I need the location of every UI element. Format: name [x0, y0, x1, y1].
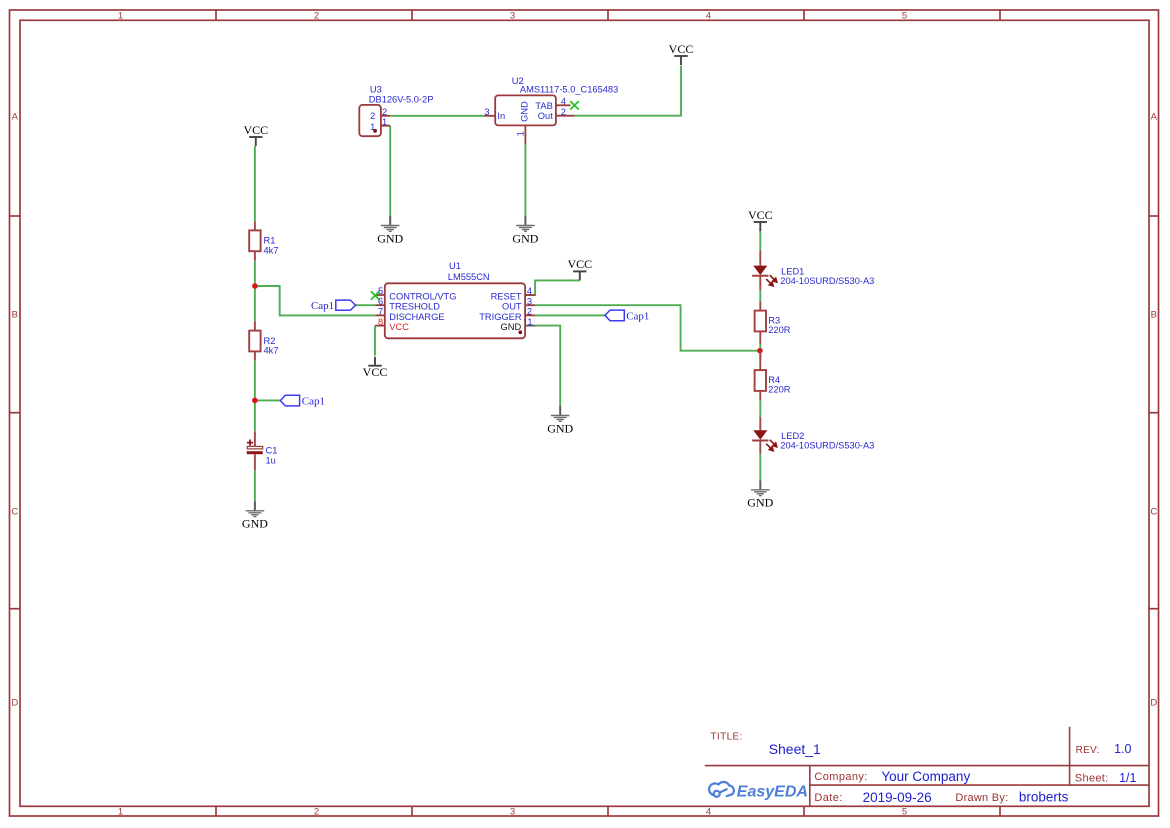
wire VCC1 to R1 — [254, 146, 256, 222]
svg-text:B: B — [1151, 310, 1157, 321]
svg-text:2019-09-26: 2019-09-26 — [863, 790, 932, 805]
wire U1 pin8 to VCC below — [374, 326, 376, 356]
svg-text:Sheet:: Sheet: — [1075, 773, 1109, 785]
svg-text:D: D — [1150, 698, 1157, 709]
svg-text:C: C — [1150, 507, 1157, 518]
port Cap1 at TRESHOLD — [311, 300, 356, 312]
svg-text:4k7: 4k7 — [264, 245, 279, 255]
svg-text:R1: R1 — [264, 236, 276, 246]
U3 — [359, 85, 433, 137]
svg-text:VCC: VCC — [389, 322, 409, 332]
svg-text:204-10SURD/S530-A3: 204-10SURD/S530-A3 — [780, 441, 874, 451]
svg-text:1: 1 — [118, 10, 123, 21]
svg-text:7: 7 — [378, 307, 383, 317]
svg-text:Sheet_1: Sheet_1 — [769, 741, 821, 757]
svg-text:R2: R2 — [264, 336, 276, 346]
svg-text:A: A — [12, 112, 19, 123]
svg-text:3: 3 — [527, 296, 532, 306]
ground at U1 pin1 — [547, 406, 573, 435]
wire R4 to LED2 — [759, 400, 761, 417]
svg-text:In: In — [497, 111, 505, 121]
node junction A — [252, 283, 258, 289]
svg-text:C1: C1 — [266, 445, 278, 455]
wire U3 pin1 to GND — [389, 126, 391, 216]
svg-text:220R: 220R — [768, 385, 791, 395]
VCC flag at R3 — [748, 208, 773, 231]
VCC flag below U1 pin8 — [363, 357, 388, 379]
pin 1 bottom — [524, 125, 526, 144]
svg-text:TRIGGER: TRIGGER — [479, 312, 522, 322]
svg-text:DISCHARGE: DISCHARGE — [389, 312, 444, 322]
svg-text:Out: Out — [538, 111, 553, 121]
svg-text:3: 3 — [510, 10, 515, 21]
svg-text:GND: GND — [520, 101, 530, 122]
svg-text:LM555CN: LM555CN — [448, 272, 490, 282]
svg-text:2: 2 — [314, 807, 319, 818]
svg-text:4k7: 4k7 — [264, 345, 279, 355]
U2 — [484, 76, 618, 144]
svg-text:5: 5 — [902, 10, 907, 21]
node junction C — [757, 348, 763, 354]
svg-text:2: 2 — [382, 107, 387, 117]
svg-text:OUT: OUT — [502, 302, 522, 312]
ground at U3 — [377, 216, 403, 245]
svg-text:1: 1 — [515, 131, 525, 136]
svg-text:TRESHOLD: TRESHOLD — [389, 302, 440, 312]
wire junction B to port Cap1 — [255, 399, 280, 401]
svg-text:broberts: broberts — [1019, 790, 1069, 805]
wire U3 pin2 to U2 In — [390, 115, 485, 117]
svg-text:4: 4 — [527, 286, 532, 296]
right pins stubs — [525, 295, 535, 315]
left pins stubs — [375, 295, 385, 326]
svg-text:2: 2 — [314, 10, 319, 21]
svg-text:5: 5 — [902, 807, 907, 818]
svg-text:1: 1 — [382, 117, 387, 127]
svg-text:D: D — [11, 698, 18, 709]
svg-text:3: 3 — [484, 107, 489, 117]
svg-text:4: 4 — [706, 807, 711, 818]
svg-text:Date:: Date: — [814, 792, 842, 804]
wire LED1 to R3 — [759, 290, 761, 301]
svg-text:2: 2 — [370, 111, 375, 121]
svg-text:EasyEDA: EasyEDA — [737, 784, 808, 801]
wire R1 to junction A to R2 — [254, 261, 256, 322]
resistor R1 — [249, 222, 278, 261]
wire LED2 to GND — [759, 454, 761, 481]
svg-text:6: 6 — [378, 296, 383, 306]
VCC flag at U2 out — [669, 42, 694, 65]
wire U2 GND pin to GND — [524, 145, 526, 216]
svg-text:C: C — [11, 507, 18, 518]
wire U1 GND pin to GND — [535, 326, 560, 406]
port Cap1 at junction B — [280, 395, 325, 407]
capacitor C1 — [247, 431, 278, 470]
svg-text:AMS1117-5.0_C165483: AMS1117-5.0_C165483 — [520, 85, 618, 95]
svg-text:B: B — [12, 310, 18, 321]
svg-text:4: 4 — [561, 96, 566, 106]
svg-text:Drawn By:: Drawn By: — [955, 792, 1008, 804]
svg-text:4: 4 — [706, 10, 711, 21]
wire TRESHOLD to port — [356, 304, 376, 306]
svg-text:Company:: Company: — [814, 771, 867, 783]
svg-text:5: 5 — [378, 286, 383, 296]
svg-text:Cap1: Cap1 — [626, 310, 649, 322]
svg-text:1: 1 — [527, 317, 532, 327]
svg-text:220R: 220R — [768, 325, 791, 335]
op-amp U1 — [371, 261, 535, 338]
wire VCC to RESET — [525, 280, 580, 295]
svg-text:TITLE:: TITLE: — [710, 731, 742, 742]
resistor R2 — [249, 321, 278, 360]
resistor R4 — [755, 351, 791, 401]
svg-text:U3: U3 — [370, 85, 382, 95]
svg-text:Cap1: Cap1 — [302, 395, 325, 407]
svg-text:2: 2 — [561, 107, 566, 117]
svg-text:Cap1: Cap1 — [311, 300, 334, 312]
no-connect X on pin 5 — [371, 291, 379, 299]
LED1 — [752, 251, 874, 291]
wire C1 to GND — [254, 470, 256, 501]
svg-text:1u: 1u — [266, 455, 276, 465]
svg-text:1/1: 1/1 — [1119, 771, 1136, 785]
ground at U2 — [512, 216, 538, 245]
svg-text:3: 3 — [510, 807, 515, 818]
wire junction A to DISCHARGE — [255, 286, 375, 315]
svg-text:REV:: REV: — [1076, 745, 1100, 756]
VCC flag at R1 — [243, 123, 268, 146]
svg-text:DB126V-5.0-2P: DB126V-5.0-2P — [369, 94, 434, 104]
ground at C1 — [242, 501, 268, 530]
no-connect X on pin 4 — [570, 101, 578, 109]
wire VCC4 to LED1 — [759, 229, 761, 250]
svg-text:1.0: 1.0 — [1114, 742, 1131, 756]
svg-text:1: 1 — [118, 807, 123, 818]
wire OUT to junction C — [535, 305, 757, 351]
wire TRIGGER to port Cap1 — [535, 314, 605, 316]
resistor R3 — [755, 301, 791, 344]
svg-text:TAB: TAB — [535, 101, 552, 111]
VCC flag at U1 RESET — [567, 257, 592, 280]
LED2 — [752, 417, 874, 454]
node junction B — [252, 398, 258, 404]
svg-text:Your Company: Your Company — [881, 769, 970, 784]
svg-text:R3: R3 — [768, 315, 780, 325]
pin 3 In — [485, 115, 496, 117]
wire R3 to junction C to R4 — [759, 344, 761, 361]
wire U2 Out to VCC — [574, 66, 681, 116]
EasyEDA logo — [709, 782, 734, 797]
svg-text:204-10SURD/S530-A3: 204-10SURD/S530-A3 — [780, 276, 874, 286]
port Cap1 at TRIGGER — [605, 310, 649, 322]
svg-text:R4: R4 — [768, 375, 780, 385]
svg-text:8: 8 — [378, 317, 383, 327]
svg-text:U1: U1 — [449, 261, 461, 271]
wire R2 to junction B to C1 — [254, 361, 256, 432]
svg-text:A: A — [1151, 112, 1158, 123]
svg-text:RESET: RESET — [491, 292, 522, 302]
svg-text:GND: GND — [501, 322, 522, 332]
svg-text:CONTROL/VTG: CONTROL/VTG — [389, 292, 456, 302]
ground at LED2 — [747, 480, 773, 509]
svg-text:2: 2 — [527, 307, 532, 317]
